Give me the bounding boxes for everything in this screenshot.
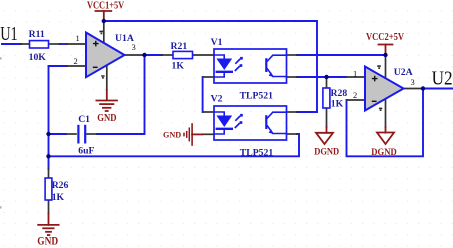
svg-text:U1A: U1A [115, 33, 134, 44]
svg-text:GND: GND [97, 112, 116, 124]
svg-text:1: 1 [353, 68, 357, 78]
svg-text:2: 2 [353, 90, 357, 100]
svg-text:R11: R11 [29, 29, 45, 40]
svg-text:U1: U1 [0, 23, 18, 45]
svg-text:V2: V2 [211, 94, 223, 105]
svg-text:R26: R26 [52, 180, 69, 191]
svg-text:VCC2+5V: VCC2+5V [366, 32, 404, 43]
svg-text:TLP521: TLP521 [240, 91, 274, 102]
svg-text:C1: C1 [78, 114, 90, 125]
svg-text:1K: 1K [52, 192, 65, 203]
svg-text:DGND: DGND [371, 147, 396, 158]
svg-text:1K: 1K [331, 98, 344, 109]
svg-text:2: 2 [74, 56, 78, 66]
svg-text:U2: U2 [432, 67, 453, 89]
svg-text:3: 3 [411, 77, 415, 87]
svg-text:10K: 10K [29, 52, 47, 63]
svg-text:R21: R21 [171, 41, 188, 52]
svg-text:6uF: 6uF [78, 145, 94, 156]
svg-text:TLP521: TLP521 [240, 148, 274, 159]
svg-text:U2A: U2A [394, 67, 413, 78]
svg-text:VCC1+5V: VCC1+5V [87, 0, 125, 11]
svg-text:1K: 1K [172, 61, 185, 72]
svg-text:1: 1 [76, 33, 80, 43]
svg-text:GND: GND [37, 236, 58, 248]
svg-text:GND: GND [163, 130, 181, 139]
svg-text:V1: V1 [211, 37, 223, 48]
svg-text:DGND: DGND [314, 146, 339, 157]
